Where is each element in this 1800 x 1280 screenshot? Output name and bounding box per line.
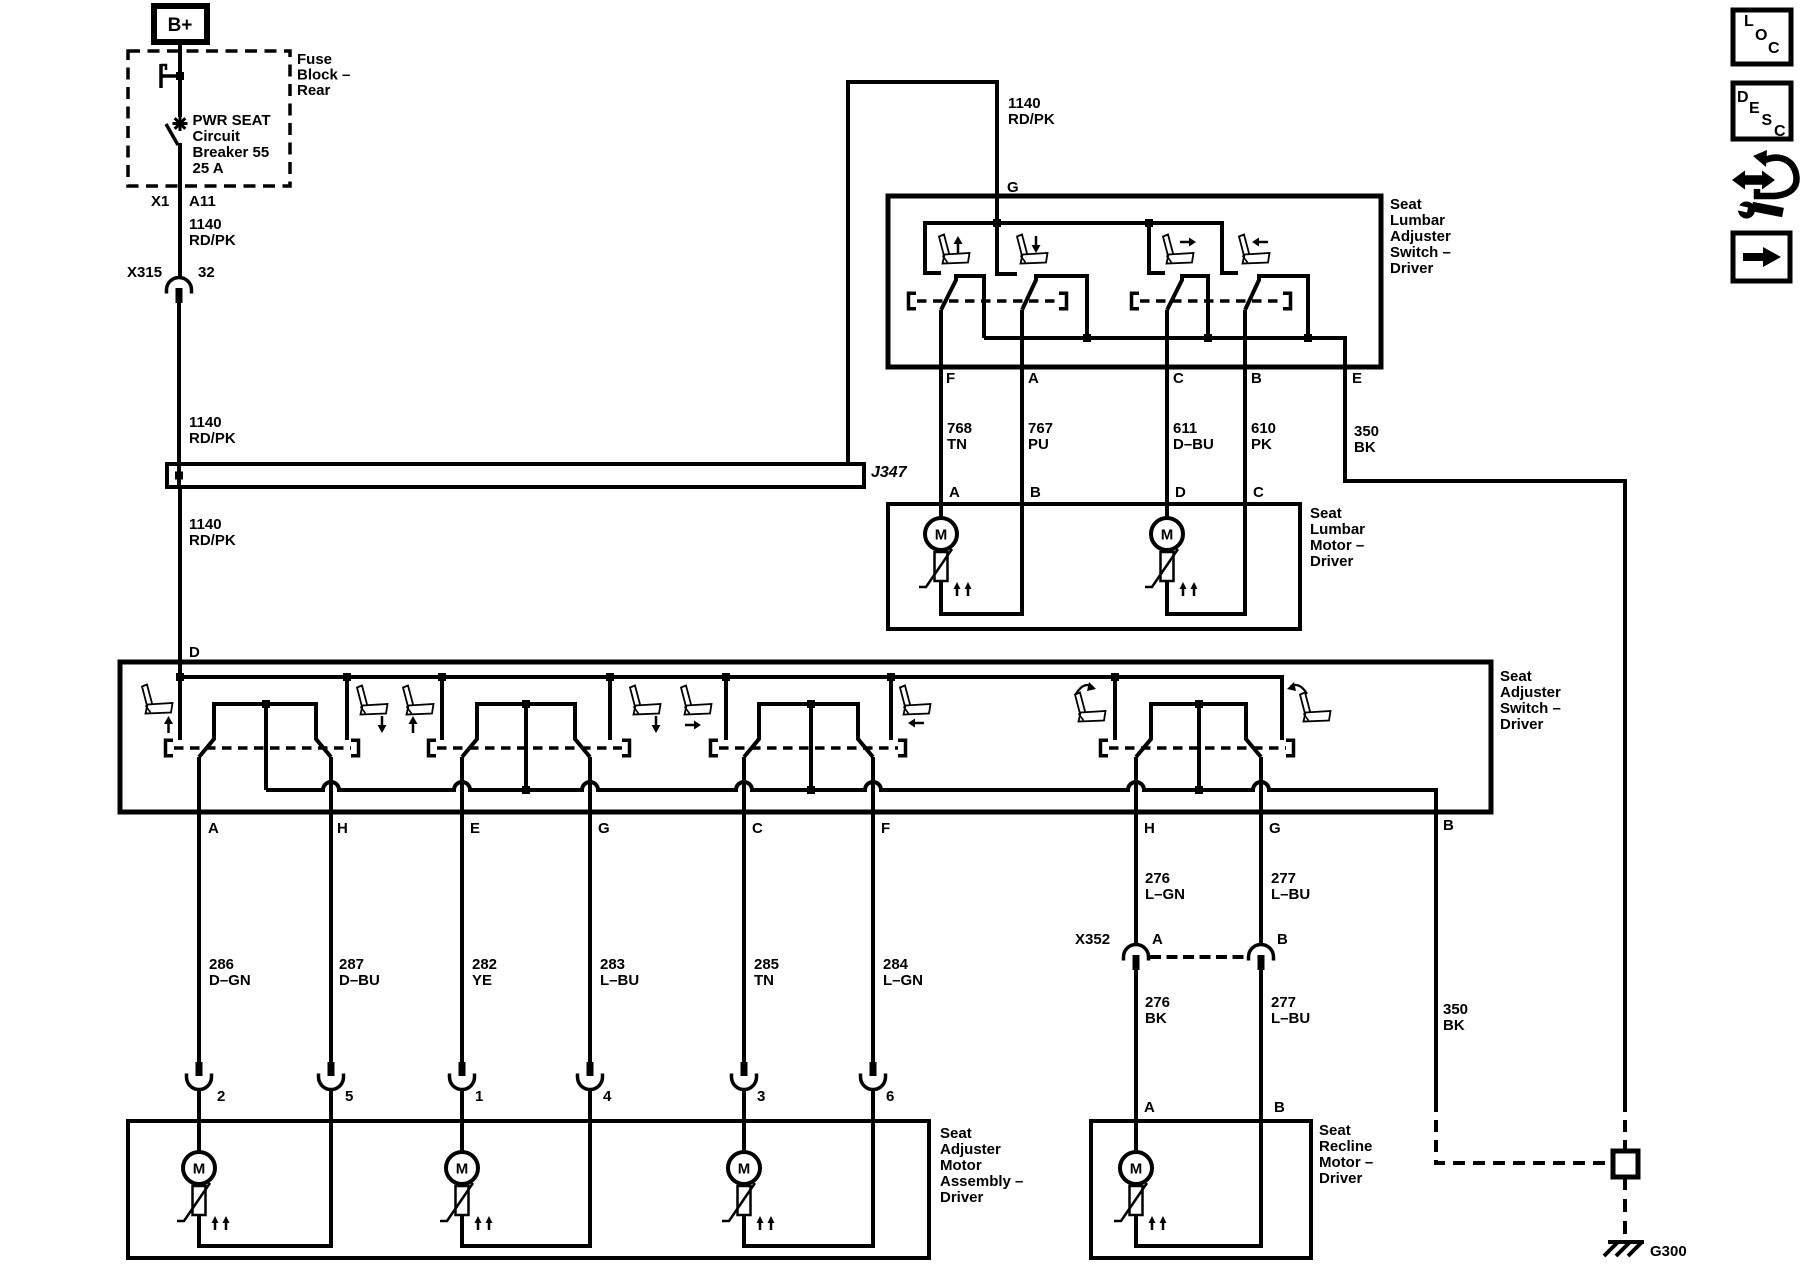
switch S4 yoke	[1149, 700, 1248, 790]
wire label 287 D-BU	[339, 956, 380, 989]
svg-text:G: G	[1269, 820, 1281, 837]
svg-text:2: 2	[217, 1088, 225, 1105]
arrow up	[164, 716, 173, 733]
svg-text:O: O	[1755, 27, 1767, 44]
svg-text:Block –: Block –	[297, 67, 350, 84]
svg-text:Adjuster: Adjuster	[940, 1141, 1001, 1158]
lumbar switch feed bus	[923, 221, 1238, 275]
adjuster motor 3 thermistor	[722, 1183, 775, 1230]
recline motor	[1120, 1152, 1152, 1184]
svg-text:PWR SEAT: PWR SEAT	[193, 112, 271, 129]
connector pin 2	[187, 1062, 226, 1105]
adjuster motor 2	[446, 1152, 478, 1184]
svg-text:276: 276	[1145, 994, 1170, 1011]
svg-text:H: H	[337, 820, 348, 837]
lumbar motor 1	[925, 518, 957, 550]
svg-text:L–BU: L–BU	[1271, 1010, 1310, 1027]
switch S3 yoke	[757, 700, 860, 790]
svg-text:276: 276	[1145, 870, 1170, 887]
node pole C return	[1204, 334, 1212, 342]
wire J347 to lumbar switch riser	[848, 82, 1017, 464]
svg-text:A: A	[949, 484, 960, 501]
svg-text:287: 287	[339, 956, 364, 973]
lumbar switch common return to pin E	[984, 338, 1345, 483]
svg-text:350: 350	[1443, 1001, 1468, 1018]
switch S1 pole H	[316, 704, 331, 757]
wire 276 BK X352 to recline motor A	[1134, 970, 1138, 1152]
wire label 350 BK	[1443, 1001, 1468, 1034]
seat icon forward	[681, 686, 712, 715]
svg-text:RD/PK: RD/PK	[1008, 111, 1055, 128]
wire 285 TN pin C to motor pin 3	[742, 757, 746, 1062]
switch S3 pole C	[744, 704, 759, 757]
wire J347 to seat adjuster switch pin D	[178, 487, 182, 740]
svg-text:Assembly –: Assembly –	[940, 1173, 1023, 1190]
svg-text:F: F	[881, 820, 890, 837]
wire 282 YE pin E to motor pin 1	[460, 757, 464, 1062]
svg-text:277: 277	[1271, 870, 1296, 887]
wire X315 to J347	[177, 302, 181, 487]
lumbar motor 2	[1151, 518, 1183, 550]
svg-text:284: 284	[883, 956, 909, 973]
pin labels A B recline	[1144, 1099, 1285, 1116]
connector pin 1	[450, 1062, 484, 1105]
node 1140 tap on J347	[175, 472, 183, 480]
svg-text:B: B	[1251, 370, 1262, 387]
wire label 283 L-BU	[600, 956, 639, 989]
seat icon lumbar forward	[1163, 235, 1194, 264]
svg-text:G: G	[598, 820, 610, 837]
wire 284 L-GN pin F to motor pin 6	[871, 757, 875, 1062]
svg-text:Motor –: Motor –	[1319, 1154, 1373, 1171]
lumbar switch pole A	[1022, 276, 1087, 338]
pin X1 A11 labels	[151, 193, 216, 210]
node yoke S4	[1195, 786, 1203, 794]
wire pin 1 into motor box	[460, 1089, 464, 1152]
svg-text:1140: 1140	[189, 216, 222, 233]
svg-text:Seat: Seat	[1390, 196, 1422, 213]
wire label 276 BK	[1145, 994, 1170, 1027]
wire lumbar motor 1 loop	[941, 504, 1022, 614]
wire label 277 L-BU	[1271, 870, 1310, 903]
svg-text:RD/PK: RD/PK	[189, 532, 236, 549]
switch S1 pole A	[199, 704, 214, 757]
svg-text:X315: X315	[127, 264, 162, 281]
svg-text:Breaker 55: Breaker 55	[193, 144, 270, 161]
legend diagnostic icon	[1732, 150, 1797, 219]
svg-text:1140: 1140	[189, 516, 222, 533]
switch S3 pole F	[858, 704, 873, 757]
svg-text:H: H	[1144, 820, 1155, 837]
wire label 1140 RD/PK	[189, 414, 236, 447]
seat lumbar adjuster switch driver enclosure	[888, 196, 1451, 367]
svg-text:6: 6	[886, 1088, 894, 1105]
svg-text:283: 283	[600, 956, 625, 973]
node yoke S3	[807, 786, 815, 794]
adjuster motor 2 thermistor	[440, 1183, 493, 1230]
arrow down	[652, 716, 661, 733]
wire 350 BK lumbar return	[1345, 481, 1625, 1100]
svg-text:Lumbar: Lumbar	[1390, 212, 1445, 229]
svg-text:S: S	[1762, 112, 1773, 129]
node pole B return	[1304, 334, 1312, 342]
svg-text:E: E	[1749, 100, 1760, 117]
seat icon rearward	[900, 686, 931, 715]
svg-text:Recline: Recline	[1319, 1138, 1372, 1155]
svg-text:4: 4	[603, 1088, 612, 1105]
wire pin 5 into motor box	[329, 1089, 333, 1246]
pin labels A H E G C F H G B	[208, 817, 1454, 837]
svg-text:Motor –: Motor –	[1310, 537, 1364, 554]
svg-text:285: 285	[754, 956, 779, 973]
svg-text:E: E	[470, 820, 480, 837]
wire lumbar pin A to motor 767 PU	[1020, 310, 1024, 504]
svg-text:767: 767	[1028, 420, 1053, 437]
wire lumbar pin B to motor 610 PK	[1243, 310, 1247, 504]
svg-text:G: G	[1007, 179, 1019, 196]
wire lumbar motor 2 loop	[1167, 504, 1245, 614]
node pole A return	[1083, 334, 1091, 342]
switch S4 pole H	[1136, 704, 1151, 757]
arrow curved left	[1287, 682, 1307, 694]
wire dashed to ground splice	[1623, 1100, 1627, 1151]
wire label 350 BK	[1354, 423, 1379, 456]
wire dashed splice to G300	[1623, 1177, 1627, 1240]
switch S2 yoke	[475, 700, 577, 790]
pin labels A B D C	[949, 484, 1264, 501]
svg-text:PU: PU	[1028, 436, 1049, 453]
node lumbar bus tap	[1145, 219, 1153, 227]
svg-text:1: 1	[475, 1088, 483, 1105]
svg-text:C: C	[1774, 123, 1786, 140]
svg-text:X1: X1	[151, 193, 169, 210]
legend DESC box	[1733, 83, 1791, 140]
wire adjuster motor 3 loop	[744, 1121, 873, 1246]
arrow down	[378, 716, 387, 733]
svg-text:A11: A11	[189, 193, 216, 210]
wire 276 L-GN pin H to X352 A	[1134, 757, 1138, 945]
wire label 1140 RD/PK	[189, 516, 236, 549]
svg-text:Seat: Seat	[1319, 1122, 1351, 1139]
seat icon lumbar down	[1017, 235, 1048, 264]
battery feed B+ terminal	[154, 6, 207, 42]
svg-text:E: E	[1352, 370, 1362, 387]
switch linkage 1	[164, 739, 360, 758]
switch S2 pole E	[462, 704, 477, 757]
wire label 610 PK	[1251, 420, 1276, 453]
connector pin 3	[732, 1062, 766, 1105]
wire label 611 D-BU	[1173, 420, 1214, 453]
adjuster switch feed bus	[180, 675, 1282, 740]
svg-text:YE: YE	[472, 972, 492, 989]
wire switch common return to pin B	[266, 782, 1436, 1100]
wire 286 D-GN pin A to motor pin 2	[197, 757, 201, 1062]
svg-text:25 A: 25 A	[193, 160, 224, 177]
svg-text:L–GN: L–GN	[1145, 886, 1185, 903]
wire label 284 L-GN	[883, 956, 923, 989]
svg-text:A: A	[1028, 370, 1039, 387]
seat icon front up	[142, 685, 173, 714]
svg-text:F: F	[946, 370, 955, 387]
svg-text:C: C	[1253, 484, 1264, 501]
svg-text:J347: J347	[871, 464, 908, 481]
wire pin 6 into motor box	[871, 1089, 875, 1246]
svg-text:5: 5	[345, 1088, 353, 1105]
svg-text:Switch –: Switch –	[1390, 244, 1451, 261]
wire 350 BK dashed to splice	[1436, 1100, 1609, 1163]
svg-text:Seat: Seat	[1310, 505, 1342, 522]
svg-text:D: D	[189, 644, 200, 661]
adjuster motor 1	[183, 1152, 215, 1184]
svg-text:B+: B+	[168, 15, 193, 36]
svg-text:A: A	[1152, 931, 1163, 948]
svg-text:B: B	[1274, 1099, 1285, 1116]
switch S4 pole G	[1246, 704, 1261, 757]
wire lumbar pin F to motor 768 TN	[939, 310, 943, 518]
connector pin 4	[578, 1062, 613, 1105]
svg-text:Seat: Seat	[1500, 668, 1532, 685]
svg-text:G300: G300	[1650, 1243, 1687, 1260]
lumbar switch linkage 1	[907, 292, 1068, 311]
seat icon rear up	[403, 686, 434, 715]
legend LOC box	[1733, 10, 1791, 64]
wire lumbar pin C to motor 611 D-BU	[1165, 310, 1169, 518]
seat recline motor enclosure	[1091, 1121, 1373, 1258]
circuit breaker 55 symbol	[161, 64, 271, 177]
splice bus J347	[167, 464, 908, 487]
connector X352 pin A	[1075, 931, 1163, 970]
svg-text:Motor: Motor	[940, 1157, 982, 1174]
seat adjuster switch driver enclosure	[120, 662, 1561, 812]
seat lumbar motor driver enclosure	[888, 504, 1365, 629]
lumbar switch pole F	[941, 276, 984, 338]
connector X352 pin B	[1249, 931, 1289, 970]
svg-text:Driver: Driver	[940, 1189, 984, 1206]
wire 283 L-BU pin G to motor pin 4	[588, 757, 592, 1062]
wire label 768 TN	[947, 420, 972, 453]
wire B+ to circuit breaker	[178, 42, 182, 117]
svg-text:Driver: Driver	[1390, 260, 1434, 277]
lumbar switch pole B	[1245, 276, 1308, 338]
wire recline motor loop	[1136, 1121, 1261, 1246]
svg-text:611: 611	[1173, 420, 1197, 437]
connector pin 5	[319, 1062, 354, 1105]
seat icon lumbar rearward	[1239, 235, 1270, 264]
seat icon front down	[357, 686, 388, 715]
arrow right	[685, 721, 701, 730]
adjuster motor 1 thermistor	[177, 1183, 230, 1230]
svg-text:TN: TN	[754, 972, 774, 989]
svg-text:3: 3	[757, 1088, 765, 1105]
svg-text:286: 286	[209, 956, 234, 973]
svg-text:Switch –: Switch –	[1500, 700, 1561, 717]
wire breaker to X315	[178, 143, 182, 277]
svg-text:Rear: Rear	[297, 82, 331, 99]
switch linkage 2	[427, 739, 631, 758]
svg-text:L–BU: L–BU	[1271, 886, 1310, 903]
wire label 276 L-GN	[1145, 870, 1185, 903]
svg-text:277: 277	[1271, 994, 1296, 1011]
svg-text:768: 768	[947, 420, 972, 437]
svg-text:Adjuster: Adjuster	[1500, 684, 1561, 701]
svg-text:BK: BK	[1354, 439, 1376, 456]
svg-text:Driver: Driver	[1500, 716, 1544, 733]
ground G300	[1604, 1242, 1687, 1260]
splice block	[1613, 1151, 1638, 1177]
connector X315 pin 32	[127, 264, 215, 303]
arrow right	[1180, 238, 1196, 247]
pin labels F A C B E	[946, 370, 1362, 387]
wire label 285 TN	[754, 956, 779, 989]
arrow left	[908, 719, 924, 728]
switch S1 yoke	[212, 700, 318, 790]
svg-text:C: C	[1768, 40, 1780, 57]
node yoke S2	[522, 786, 530, 794]
wire pin 4 into motor box	[588, 1089, 592, 1246]
arrow down	[1032, 236, 1041, 253]
svg-text:282: 282	[472, 956, 497, 973]
arrow up	[409, 716, 418, 733]
svg-text:RD/PK: RD/PK	[189, 430, 236, 447]
svg-text:Driver: Driver	[1310, 553, 1354, 570]
svg-text:610: 610	[1251, 420, 1276, 437]
svg-text:B: B	[1443, 817, 1454, 834]
svg-text:Seat: Seat	[940, 1125, 972, 1142]
svg-text:D: D	[1737, 89, 1749, 106]
seat icon recline rearward	[1300, 693, 1331, 722]
wire 277 L-BU pin G to X352 B	[1259, 757, 1263, 945]
switch linkage 4	[1099, 739, 1295, 758]
svg-text:Driver: Driver	[1319, 1170, 1363, 1187]
lumbar motor 1 thermistor	[919, 549, 972, 596]
seat icon rear down	[630, 686, 661, 715]
svg-text:RD/PK: RD/PK	[189, 232, 236, 249]
svg-text:D: D	[1175, 484, 1186, 501]
seat icon recline forward	[1075, 693, 1106, 722]
switch S2 pole G	[575, 704, 590, 757]
svg-text:Lumbar: Lumbar	[1310, 521, 1365, 538]
svg-text:C: C	[752, 820, 763, 837]
seat adjuster motor assembly enclosure	[128, 1121, 1023, 1258]
recline motor thermistor	[1114, 1183, 1167, 1230]
wire label 282 YE	[472, 956, 497, 989]
arrow curved right	[1076, 682, 1096, 694]
wire label 1140 RD/PK	[189, 216, 236, 249]
wire label 286 D-GN	[209, 956, 251, 989]
svg-text:A: A	[208, 820, 219, 837]
node bus taps	[176, 673, 1119, 681]
wire label 767 PU	[1028, 420, 1053, 453]
wire pin 2 into motor box	[197, 1089, 201, 1152]
lumbar switch linkage 2	[1130, 292, 1292, 311]
svg-text:1140: 1140	[189, 414, 222, 431]
svg-text:Adjuster: Adjuster	[1390, 228, 1451, 245]
wire label 1140 RD/PK	[1008, 95, 1055, 128]
svg-text:BK: BK	[1145, 1010, 1167, 1027]
adjuster motor 3	[728, 1152, 760, 1184]
svg-text:C: C	[1173, 370, 1184, 387]
svg-text:32: 32	[198, 264, 215, 281]
node G feed junction	[993, 219, 1001, 227]
svg-text:X352: X352	[1075, 931, 1110, 948]
svg-text:Circuit: Circuit	[193, 128, 241, 145]
switch linkage 3	[709, 739, 907, 758]
svg-text:L: L	[1744, 13, 1754, 30]
svg-text:Fuse: Fuse	[297, 51, 332, 68]
wire adjuster motor 1 loop	[199, 1121, 331, 1246]
svg-text:B: B	[1030, 484, 1041, 501]
svg-text:D–BU: D–BU	[339, 972, 380, 989]
svg-text:PK: PK	[1251, 436, 1272, 453]
lumbar motor 2 thermistor	[1145, 549, 1198, 596]
seat icon lumbar up	[939, 235, 970, 264]
wire pin 3 into motor box	[742, 1089, 746, 1152]
svg-text:D–BU: D–BU	[1173, 436, 1214, 453]
legend arrow box	[1733, 233, 1790, 281]
svg-text:1140: 1140	[1008, 95, 1041, 112]
svg-text:350: 350	[1354, 423, 1379, 440]
wire 277 L-BU X352 to recline motor B	[1259, 970, 1263, 1121]
node breaker tap	[176, 72, 184, 80]
svg-text:BK: BK	[1443, 1017, 1465, 1034]
wire adjuster motor 2 loop	[462, 1121, 590, 1246]
lumbar switch pole C	[1167, 276, 1208, 338]
wire X352 harness dashed	[1150, 955, 1248, 959]
svg-text:D–GN: D–GN	[209, 972, 251, 989]
arrow up	[954, 236, 963, 253]
svg-text:L–GN: L–GN	[883, 972, 923, 989]
svg-text:TN: TN	[947, 436, 967, 453]
fuse block rear dashed enclosure	[128, 51, 350, 186]
wire label 277 L-BU	[1271, 994, 1310, 1027]
wire 287 D-BU pin H to motor pin 5	[329, 757, 333, 1062]
connector pin 6	[861, 1062, 895, 1105]
svg-text:L–BU: L–BU	[600, 972, 639, 989]
svg-text:A: A	[1144, 1099, 1155, 1116]
svg-text:B: B	[1277, 931, 1288, 948]
arrow left	[1252, 238, 1268, 247]
